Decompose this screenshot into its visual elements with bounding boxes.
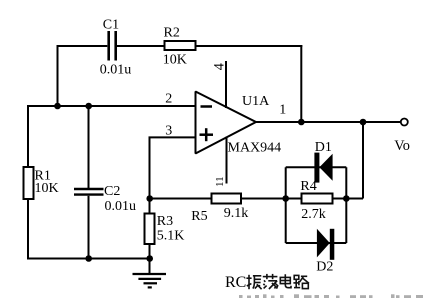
svg-text:D1: D1 xyxy=(315,140,332,155)
svg-text:10K: 10K xyxy=(35,181,59,196)
svg-text:4: 4 xyxy=(212,63,228,70)
svg-text:10K: 10K xyxy=(163,53,187,68)
svg-text:D2: D2 xyxy=(316,260,333,275)
svg-text:R2: R2 xyxy=(164,26,180,41)
svg-text:0.01u: 0.01u xyxy=(105,199,137,214)
svg-text:R4: R4 xyxy=(300,179,316,194)
svg-text:5.1K: 5.1K xyxy=(157,228,185,243)
svg-text:U1A: U1A xyxy=(242,94,270,109)
svg-text:1: 1 xyxy=(279,103,286,118)
svg-text:2: 2 xyxy=(165,92,172,107)
svg-text:MAX944: MAX944 xyxy=(228,141,282,156)
svg-text:Vo: Vo xyxy=(394,138,410,154)
svg-text:0.01u: 0.01u xyxy=(100,63,132,78)
svg-text:R3: R3 xyxy=(157,214,173,229)
svg-text:11: 11 xyxy=(214,176,226,187)
svg-text:R5: R5 xyxy=(191,209,207,224)
svg-text:3: 3 xyxy=(165,124,172,139)
svg-text:C1: C1 xyxy=(103,17,119,32)
svg-text:C2: C2 xyxy=(104,184,120,199)
svg-text:RC: RC xyxy=(225,274,246,291)
svg-text:2.7k: 2.7k xyxy=(301,207,326,222)
svg-text:9.1k: 9.1k xyxy=(224,206,249,221)
